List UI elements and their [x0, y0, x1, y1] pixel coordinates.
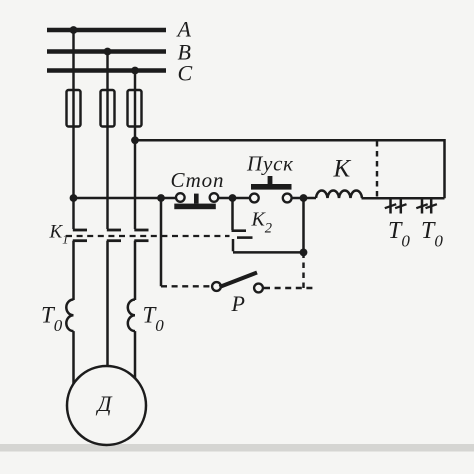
bus B — [47, 49, 166, 53]
svg-text:Д: Д — [96, 391, 113, 416]
wire phase 3 lower — [134, 241, 137, 300]
fuse F2 — [101, 90, 115, 127]
fuse F3 — [128, 90, 142, 127]
auxiliary contact K2 — [232, 198, 253, 251]
wire phase 3 from bus C to contact K1 — [134, 71, 136, 230]
bus C — [47, 68, 166, 72]
wire K2 holding branch bottom — [233, 198, 304, 252]
wire phase 2 lower to motor — [106, 241, 109, 367]
fuse F1 — [67, 90, 81, 127]
wire top control line — [135, 140, 445, 198]
thermal relay contact T0 first — [385, 198, 407, 213]
contactor main contacts K1 — [73, 230, 149, 241]
wire phase 1 lower — [72, 241, 75, 300]
svg-text:C: C — [178, 61, 193, 86]
scan artifact gray band — [0, 444, 474, 452]
wire phase 2 from bus B to contact K1 — [106, 52, 108, 230]
wire between stop and start buttons — [218, 197, 250, 200]
wire from start button to coil — [292, 197, 317, 200]
pressure switch contact P — [212, 273, 263, 293]
svg-text:Пуск: Пуск — [246, 152, 293, 176]
dashed enclosure boundary line — [376, 141, 378, 198]
start button SB2 contacts — [250, 176, 292, 202]
node control branch on phase 3 — [131, 136, 139, 144]
wire phase 1 to motor — [72, 331, 75, 384]
wire phase 3 to motor — [134, 331, 137, 379]
wire phase 1 from bus A to contact K1 — [72, 30, 74, 229]
junction bus A / phase 1 — [70, 26, 78, 34]
junction bus B / phase 2 — [104, 48, 112, 56]
motor Д — [67, 366, 146, 445]
wire dashed from P to holding branch — [264, 287, 313, 289]
wire from coil to right side — [362, 197, 445, 200]
wire stop branch down — [160, 198, 163, 286]
wire dashed up to holding corner — [302, 252, 304, 288]
node holding branch corner — [300, 249, 308, 257]
coil K of contactor — [316, 191, 362, 198]
thermal heater T0 phase 3 — [128, 300, 135, 332]
node control line tap on phase 1 — [70, 194, 78, 202]
svg-text:Р: Р — [231, 291, 245, 316]
svg-text:К: К — [333, 156, 352, 183]
node stop branch — [157, 194, 165, 202]
svg-text:Стоп: Стоп — [171, 168, 224, 192]
svg-text:A: A — [176, 17, 192, 42]
stop button SB1 contacts — [174, 193, 218, 209]
thermal heater T0 phase 1 — [66, 300, 73, 332]
mechanical linkage dashed line — [66, 235, 230, 237]
wire control line to stop button — [74, 197, 177, 200]
junction bus C / phase 3 — [131, 67, 139, 75]
node K2 branch left — [229, 194, 237, 202]
wire dashed to pressure contact P — [161, 285, 211, 287]
thermal relay contact T0 second — [416, 198, 437, 213]
node K2 branch right — [300, 194, 308, 202]
bus A — [47, 28, 166, 32]
